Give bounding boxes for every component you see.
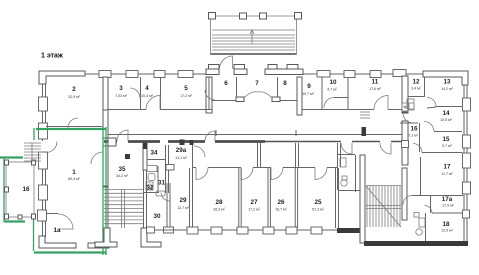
room1 door arc top left (68, 118, 78, 128)
bottom windows row (187, 227, 322, 234)
svg-text:29а: 29а (176, 147, 187, 154)
porch posts (209, 13, 302, 20)
room1/35 dividing wall (103, 110, 116, 243)
porch bottom edge (211, 53, 296, 55)
rooms31/32 walls (143, 166, 159, 193)
svg-text:1: 1 (72, 169, 76, 176)
room30 inner partitions (144, 170, 171, 228)
door arcs rooms 25-28 (196, 168, 208, 180)
right staircase treads (366, 186, 401, 228)
vestibule double door arcs (236, 97, 244, 102)
right wing left wall segments (402, 76, 408, 220)
wall room3/4 thin (140, 77, 142, 110)
bottom heavy wall right of room25 (337, 228, 363, 233)
svg-text:17: 17 (443, 164, 451, 171)
top wall windows (99, 70, 406, 78)
svg-text:14: 14 (442, 110, 450, 117)
room1a door arc (58, 214, 73, 229)
right wing wc fixtures (407, 99, 425, 235)
svg-text:32,9 м²: 32,9 м² (68, 95, 80, 99)
middle staircase (104, 189, 143, 228)
side stairs to room1 (24, 143, 41, 161)
svg-text:10,4 м²: 10,4 м² (141, 94, 153, 98)
svg-text:28,3 м²: 28,3 м² (213, 208, 225, 212)
room1 side door arc (46, 142, 57, 153)
svg-text:17,6 м²: 17,6 м² (369, 87, 381, 91)
svg-text:18: 18 (442, 221, 450, 228)
door arc room12 area (403, 113, 413, 123)
wc fixtures left of room12 (402, 103, 414, 111)
door arc room10 (324, 98, 334, 108)
svg-text:17,2 м²: 17,2 м² (180, 94, 192, 98)
svg-text:5: 5 (184, 85, 188, 92)
svg-text:11: 11 (372, 79, 379, 86)
svg-text:27: 27 (250, 199, 258, 206)
bottom small windows near stair exit (147, 227, 155, 233)
svg-text:30: 30 (153, 213, 161, 220)
door arc room4 (130, 88, 140, 98)
stairwell exit walls (95, 228, 117, 247)
black cap wall left of room12 col (362, 127, 367, 136)
porch arrow (250, 30, 254, 44)
top wall thin segments (85, 73, 423, 75)
svg-text:17а: 17а (442, 196, 453, 203)
svg-text:15: 15 (442, 136, 450, 143)
svg-text:32: 32 (146, 185, 154, 192)
room29a door arc (194, 146, 205, 157)
corridor bottom wall with doors (193, 167, 338, 169)
room9 left thick wall (297, 77, 302, 115)
svg-text:16: 16 (410, 126, 418, 133)
svg-text:12,7 м²: 12,7 м² (177, 206, 189, 210)
corridor upper thin line (108, 130, 402, 136)
svg-text:2: 2 (72, 86, 76, 93)
room labels (22, 79, 454, 235)
svg-text:1а: 1а (53, 227, 61, 234)
svg-text:4: 4 (145, 85, 149, 92)
svg-text:13: 13 (443, 79, 451, 86)
svg-text:28: 28 (215, 199, 223, 206)
green outline room1 (0, 127, 106, 255)
wall room2/3 (103, 77, 108, 113)
svg-text:11,7 м²: 11,7 м² (441, 172, 453, 176)
door arc room11 (374, 96, 388, 110)
right wing bottom wall (364, 241, 468, 246)
corridor end steps (360, 112, 370, 118)
room11 right thick wall (402, 76, 408, 113)
svg-text:12,5 м²: 12,5 м² (441, 229, 453, 233)
svg-text:34,2 м²: 34,2 м² (116, 174, 128, 178)
svg-text:60,4 м²: 60,4 м² (68, 177, 80, 181)
top-right heavy wall (423, 71, 468, 85)
room1 top wall under green (46, 126, 102, 128)
corridor strip verticals (258, 143, 341, 167)
svg-text:7: 7 (255, 80, 259, 87)
svg-text:10,7 м²: 10,7 м² (302, 92, 314, 96)
svg-text:51,3 м²: 51,3 м² (312, 208, 324, 212)
svg-text:17,2 м²: 17,2 м² (248, 208, 260, 212)
svg-text:16,7 м²: 16,7 м² (275, 208, 287, 212)
right wing internal walls (400, 77, 463, 241)
right wing door arcs (403, 98, 436, 214)
wc fixtures (340, 158, 347, 186)
room5 right thick wall (206, 77, 212, 113)
porch steps (212, 30, 295, 50)
svg-text:10: 10 (329, 79, 337, 86)
top wall: room2 thick L-wall (39, 71, 85, 84)
entrance porch rails (211, 16, 297, 55)
rooms34/29a walls (143, 143, 147, 170)
svg-text:31: 31 (158, 180, 166, 187)
black columns room35 (125, 154, 130, 159)
svg-text:17,9 м²: 17,9 м² (442, 204, 454, 208)
bottom wall thin line (154, 229, 364, 231)
svg-text:7,1 м²: 7,1 м² (408, 134, 418, 138)
svg-text:3: 3 (119, 85, 123, 92)
svg-text:14,2 м²: 14,2 м² (441, 87, 453, 91)
corridor main thick wall (104, 140, 265, 143)
svg-text:1 этаж: 1 этаж (41, 53, 64, 60)
corridor door arcs (117, 130, 128, 141)
wc rooms near right stair (338, 143, 361, 192)
vestibule walls rooms 6-8 (209, 77, 298, 110)
svg-text:9,7 м²: 9,7 м² (442, 144, 452, 148)
right stair left thick wall (360, 155, 365, 243)
svg-text:26: 26 (277, 199, 285, 206)
porch16 posts (5, 160, 36, 219)
left wall windows (38, 97, 48, 221)
porch16 outline (6, 162, 34, 217)
left wing: room1 left wall (43, 84, 46, 237)
room1 door arc right (91, 152, 103, 164)
svg-text:29: 29 (179, 197, 187, 204)
svg-text:16: 16 (22, 186, 30, 193)
right wall with windows (464, 85, 467, 241)
left wing bottom wall (39, 236, 76, 248)
svg-text:7,03 м²: 7,03 м² (115, 94, 127, 98)
rooms3-5 bottom wall (108, 109, 212, 111)
svg-text:9: 9 (307, 83, 311, 90)
svg-text:10,5 м²: 10,5 м² (440, 118, 452, 122)
svg-text:8: 8 (283, 80, 287, 87)
svg-text:6: 6 (224, 80, 228, 87)
wall room4/5 thin (160, 77, 162, 110)
room1a inner wall (46, 213, 58, 215)
rooms 9/10 walls (302, 77, 402, 110)
svg-text:35: 35 (118, 166, 126, 173)
vestibule thick wall blocks (206, 65, 303, 75)
svg-text:4,7 м²: 4,7 м² (327, 88, 337, 92)
svg-text:34: 34 (150, 150, 158, 157)
svg-text:25: 25 (314, 199, 322, 206)
svg-text:13,1 м²: 13,1 м² (175, 156, 187, 160)
door arc room3 (146, 96, 160, 110)
svg-text:12: 12 (412, 79, 420, 86)
partition walls rooms 25-28 (190, 168, 339, 228)
svg-text:3,4 м²: 3,4 м² (411, 87, 421, 91)
